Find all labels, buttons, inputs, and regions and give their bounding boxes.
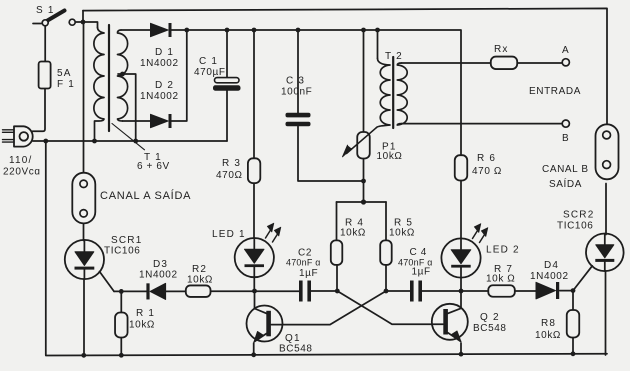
SCR2 TIC106 (586, 234, 624, 272)
wire T1 center tap to 0V (118, 74, 136, 141)
wire S1 to T1 primary top (75, 22, 98, 28)
junction D4 / R8 / SCR2 gate (571, 288, 576, 293)
pointer line T1 label (112, 124, 145, 150)
svg-text:1N4002: 1N4002 (139, 270, 178, 281)
svg-text:TIC106: TIC106 (557, 221, 593, 232)
svg-text:SCR2: SCR2 (563, 210, 594, 221)
junction T1 primary bottom (92, 139, 97, 144)
junction C1 top (225, 28, 230, 33)
wire SCR1 gate bend (100, 272, 115, 292)
wire Q2 collector (448, 291, 461, 313)
wire R8 top leg (572, 291, 574, 310)
wire D1 cathode to +rail (171, 29, 187, 31)
svg-text:470Ω: 470Ω (216, 170, 243, 181)
svg-text:ENTRADA: ENTRADA (529, 86, 581, 97)
wire P1 top (363, 30, 365, 132)
junction Q2 emitter on 0V rail (459, 352, 464, 357)
transistor Q1 BC548 (247, 306, 283, 343)
svg-text:SCR1: SCR1 (111, 235, 142, 246)
wire Q2 emitter to rail (460, 343, 462, 355)
junction R8 bottom on 0V rail (571, 351, 576, 356)
switch S1 (42, 11, 75, 26)
wire C3 top (297, 30, 299, 113)
wire LED1 cathode to trigger node (253, 277, 255, 291)
output socket CANAL B (596, 124, 619, 179)
svg-text:R 3: R 3 (222, 158, 241, 169)
wire R4 bottom leg (336, 265, 338, 291)
svg-text:1N4002: 1N4002 (140, 58, 179, 69)
svg-text:F 1: F 1 (57, 79, 75, 90)
capacitor C4 (410, 281, 422, 302)
wire R3 to LED1 (253, 183, 255, 238)
diode D3 1N4002 (146, 283, 149, 299)
resistor R7 10k (488, 285, 515, 297)
svg-text:10kΩ: 10kΩ (377, 151, 403, 162)
wire fuse column bottom (F1 to plug) (33, 89, 46, 132)
svg-text:Rx: Rx (494, 44, 509, 55)
wire T2 secondary to Rx (402, 62, 491, 64)
capacitor C1 470uF (213, 78, 241, 91)
junction S1 to live rail (81, 20, 86, 25)
wire C2 to R4 node (311, 290, 338, 292)
transformer T1 core (108, 25, 110, 131)
svg-text:100nF: 100nF (281, 87, 312, 98)
wire cross-couple C2 node to Q2 base (337, 291, 443, 324)
svg-text:10kΩ: 10kΩ (535, 330, 561, 341)
svg-text:R 6: R 6 (477, 153, 496, 164)
svg-text:D4: D4 (544, 260, 559, 271)
wire + rail (y30) (187, 30, 461, 155)
wire R5 top leg (385, 202, 387, 241)
svg-text:10kΩ: 10kΩ (129, 320, 155, 331)
junction P1 top (361, 28, 366, 33)
wire T1 secondary bottom to D2 (123, 120, 151, 122)
wire Rx to terminal A (517, 62, 562, 64)
wire T2 primary top to +rail (377, 30, 379, 59)
mains plug (3, 126, 33, 146)
svg-text:D 2: D 2 (155, 80, 174, 91)
junction T1 center tap to 0V (133, 139, 138, 144)
wire top rail from S1 junction to right side (83, 8, 607, 131)
svg-text:1N4002: 1N4002 (530, 271, 569, 282)
capacitor C2 (299, 281, 311, 302)
svg-text:LED 2: LED 2 (486, 245, 520, 256)
svg-text:Q 2: Q 2 (480, 312, 500, 323)
svg-text:5A: 5A (57, 68, 72, 79)
wire D2 cathode up to +rail (171, 30, 187, 121)
junction R4/R5 feed node (361, 199, 366, 204)
svg-text:R2: R2 (192, 264, 207, 275)
svg-text:BC548: BC548 (279, 344, 313, 355)
wire Q1 emitter to rail (253, 343, 255, 355)
fuse F1 (39, 62, 51, 89)
junction C3 / P1 wiper node (361, 179, 366, 184)
svg-text:SAÍDA: SAÍDA (549, 177, 582, 190)
svg-text:T 2: T 2 (385, 51, 403, 62)
wire gate node to SCR2 gate (573, 266, 592, 291)
wire R4/R5 tee bar (337, 201, 387, 203)
svg-text:110/: 110/ (9, 155, 33, 166)
svg-text:B: B (562, 133, 570, 144)
SCR1 TIC106 (65, 240, 104, 279)
resistor R8 10k (567, 310, 580, 338)
wire T2 secondary bottom to terminal B (402, 123, 563, 125)
junction R1 bottom on 0V rail (119, 353, 124, 358)
svg-text:Q1: Q1 (285, 333, 301, 344)
junction plug neutral / left frame (43, 139, 48, 144)
wire SCR1 gate run to D3 (114, 290, 146, 292)
svg-text:CANAL B: CANAL B (542, 164, 589, 175)
wire live column to output socket A (83, 22, 85, 180)
junction D1/D2 cathodes (184, 28, 189, 33)
LED 2 (441, 224, 487, 278)
svg-text:A: A (562, 45, 570, 56)
transformer T1 primary winding (94, 28, 104, 142)
resistor R4 10k (331, 240, 343, 265)
wire R2 to C2 (211, 290, 300, 292)
wire SCR2 cathode to bottom rail (605, 271, 607, 355)
node T1 center tap (120, 72, 125, 77)
svg-text:1N4002: 1N4002 (140, 91, 179, 102)
svg-text:TIC106: TIC106 (104, 246, 140, 257)
wire fuse column top (S1 to F1) (44, 26, 46, 62)
wire D3 to R2 (166, 290, 186, 292)
wire cross-couple C4 node to Q1 base (271, 291, 386, 325)
svg-text:C 3: C 3 (286, 76, 305, 87)
output socket CANAL A (72, 173, 95, 224)
diode D2 1N4002 (151, 114, 169, 127)
wire R3 column top (253, 30, 255, 159)
capacitor C3 100nF (286, 113, 311, 126)
wire R8 bottom leg (572, 338, 574, 356)
junction C2 / R4 / Q2 base (335, 289, 340, 294)
resistor R6 470ohm (455, 155, 468, 180)
wire C3 bottom to P1 junction (298, 127, 364, 182)
wire R4 top leg (336, 202, 338, 241)
wire SCR1 cathode to bottom rail (83, 279, 85, 355)
svg-text:470 Ω: 470 Ω (472, 166, 502, 177)
resistor R2 10k (186, 285, 211, 297)
junction R3 top (252, 28, 257, 33)
svg-text:D3: D3 (153, 259, 168, 270)
wire left frame down (45, 141, 47, 355)
junction C4 / R5 / Q1 base (384, 289, 389, 294)
svg-text:R 1: R 1 (136, 308, 155, 319)
junction SCR1 cathode on 0V rail (81, 353, 86, 358)
wire C1 bottom column (226, 91, 228, 142)
resistor R5 10k (380, 240, 392, 265)
svg-text:10kΩ: 10kΩ (340, 228, 366, 239)
svg-text:470nF ɑ: 470nF ɑ (286, 258, 320, 268)
wire R7 to D4 (515, 290, 536, 292)
transformer T1 secondary winding (118, 30, 128, 121)
wire open stub left of S1 (33, 23, 43, 25)
svg-text:10kΩ: 10kΩ (389, 228, 415, 239)
svg-text:BC548: BC548 (473, 323, 507, 334)
svg-text:CANAL A SAÍDA: CANAL A SAÍDA (100, 189, 191, 202)
wire C4 node left (386, 290, 410, 292)
junction T2 primary top (375, 28, 380, 33)
diode D1 1N4002 (151, 23, 169, 36)
wire S1 junction up to top rail (82, 11, 84, 22)
transformer T2 secondary winding (397, 63, 407, 125)
svg-text:470µF: 470µF (194, 67, 226, 78)
wire bottom rail (46, 354, 607, 356)
wire R6 to LED2 (460, 181, 462, 239)
potentiometer P1 10k body (357, 132, 370, 159)
wire plug neutral to 0V run (33, 140, 227, 142)
resistor R1 10k (115, 313, 128, 338)
wire P1 bottom to R4/R5 tee (363, 159, 365, 203)
svg-text:LED 1: LED 1 (212, 229, 246, 240)
wire D4 to gate node (560, 290, 573, 292)
resistor R3 470ohm (248, 158, 260, 183)
transformer T2 core (392, 57, 394, 128)
wire SCR2 anode from socket B (605, 184, 607, 235)
diode D4 1N4002 (536, 282, 556, 299)
wire R1 bottom leg (120, 338, 122, 356)
svg-text:1µF: 1µF (412, 267, 431, 278)
wire Q1 collector (255, 291, 267, 314)
wire R1 top leg (120, 291, 122, 312)
wire T1 secondary top to D1 (121, 29, 151, 31)
junction Q2 collector / LED2 (459, 289, 464, 294)
svg-text:S 1: S 1 (36, 5, 55, 16)
svg-text:D 1: D 1 (155, 47, 174, 58)
svg-text:220Vcɑ: 220Vcɑ (3, 167, 41, 178)
junction Q1 emitter on 0V rail (251, 352, 256, 357)
transformer T2 primary winding (377, 59, 391, 128)
svg-text:R8: R8 (541, 318, 556, 329)
transistor Q2 BC548 (432, 304, 468, 342)
wire LED2 cathode to node (460, 278, 462, 292)
junction C3 top (296, 28, 301, 33)
junction R1 / SCR1 gate (119, 289, 124, 294)
junction Q1 collector / LED1 (252, 289, 257, 294)
LED 1 (235, 223, 281, 277)
resistor Rx (491, 57, 517, 70)
wire output socket A to SCR1 anode (83, 217, 85, 241)
wire C1 top (226, 30, 228, 77)
svg-text:1µF: 1µF (299, 268, 318, 279)
terminal A (562, 59, 569, 66)
terminal B (562, 120, 569, 127)
svg-text:6 + 6V: 6 + 6V (137, 161, 170, 172)
wire C4 to LED2 node (422, 290, 488, 292)
svg-text:10kΩ: 10kΩ (187, 275, 213, 286)
wire R5 bottom leg (385, 265, 387, 291)
potentiometer P1 wiper arrow (343, 128, 377, 157)
svg-text:10k Ω: 10k Ω (486, 274, 515, 285)
svg-text:C 1: C 1 (199, 56, 218, 67)
